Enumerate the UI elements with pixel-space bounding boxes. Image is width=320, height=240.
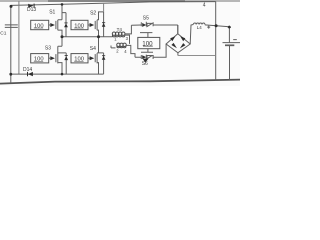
svg-text:C1: C1	[0, 31, 6, 37]
svg-text:S1: S1	[49, 10, 55, 16]
svg-text:100: 100	[74, 57, 84, 63]
svg-text:D14: D14	[23, 67, 32, 73]
svg-text:S2: S2	[90, 11, 96, 17]
svg-text:100: 100	[74, 23, 84, 29]
svg-text:T4: T4	[117, 27, 123, 32]
svg-text:S5: S5	[143, 16, 149, 22]
svg-text:S4: S4	[90, 46, 96, 52]
svg-text:S6: S6	[142, 61, 148, 67]
svg-text:100: 100	[34, 57, 44, 63]
svg-text:D13: D13	[27, 7, 36, 13]
svg-text:4: 4	[203, 3, 206, 9]
svg-text:L4: L4	[197, 25, 202, 30]
svg-text:100: 100	[142, 40, 153, 47]
svg-text:100: 100	[34, 23, 44, 29]
svg-text:S3: S3	[45, 45, 51, 51]
